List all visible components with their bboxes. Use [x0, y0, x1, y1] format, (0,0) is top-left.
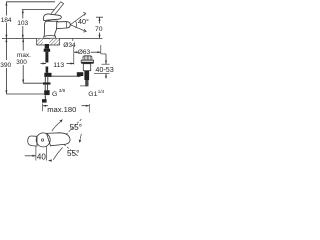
dimension 390 [5, 38, 7, 60]
spray angle 40 deg rays [71, 12, 87, 32]
top view: spout stub (left) [28, 136, 37, 146]
hoses continue [44, 85, 46, 90]
hose fitting bar [43, 82, 51, 84]
wire: 390 bottom reference line [6, 93, 44, 95]
hose tail [44, 95, 46, 99]
waste thread end line [80, 85, 87, 87]
svg-text:40°: 40° [78, 17, 89, 26]
pop-up waste detail: stem [84, 71, 89, 80]
connector block [44, 73, 51, 77]
svg-text:390: 390 [0, 62, 11, 69]
horizontal pop-up linkage rod [52, 75, 80, 77]
small rotation arrow at lever tip [80, 134, 82, 141]
dimension dia 63 [73, 46, 75, 65]
pop-up waste detail: flange [81, 60, 93, 62]
faucet side view: aerator face line [66, 22, 68, 28]
svg-text:300: 300 [16, 59, 27, 66]
faucet side view: handle lever (horizontal) [43, 14, 61, 20]
dimension 70 (spout height) [96, 16, 103, 18]
svg-text:40: 40 [37, 153, 46, 162]
svg-text:40-53: 40-53 [95, 65, 113, 74]
dimension max.180 [42, 104, 44, 112]
svg-text:G: G [52, 91, 57, 98]
wire: max300 bottom reference line [23, 82, 43, 84]
svg-text:70: 70 [95, 26, 103, 33]
dashed swivel ray lower [64, 145, 79, 157]
tick for hole dia 34 [72, 38, 74, 41]
pop-up waste detail: knurled knob [83, 56, 92, 60]
deck section bottom line [37, 44, 60, 46]
svg-text:G1: G1 [88, 91, 97, 98]
hose end fitting [42, 99, 47, 102]
svg-text:3/8: 3/8 [59, 88, 66, 93]
deck section hatching right of shank [49, 39, 59, 45]
wire: reference line height 103 [22, 9, 56, 11]
svg-text:max.180: max.180 [47, 105, 76, 114]
svg-text:Ø63: Ø63 [78, 49, 91, 56]
svg-text:113: 113 [53, 62, 64, 69]
hose pair below block [44, 77, 46, 83]
dimension 113 [41, 63, 47, 65]
dimension 40-53 (clamping range) [101, 53, 106, 55]
top view: handle lever capsule (right) [47, 133, 71, 146]
pop-up waste detail: body [83, 64, 90, 71]
svg-text:103: 103 [17, 20, 28, 27]
faucet side view: raised lever (alternate position) [46, 2, 63, 22]
top view: cartridge dot [41, 139, 43, 141]
faucet side view: spout nose [57, 22, 71, 29]
faucet side view: base flange [44, 36, 56, 39]
G 3/8 connection nut [44, 90, 49, 95]
swivel arc arrow upper [52, 122, 60, 131]
mounting nut [44, 49, 50, 52]
swivel arc arrow lower [53, 148, 62, 160]
top view: body circle [36, 133, 50, 147]
svg-text:55°: 55° [70, 123, 82, 132]
shank below deck [45, 44, 49, 49]
dimension 103 [22, 10, 24, 39]
svg-text:184: 184 [1, 17, 12, 24]
dimension 184 [5, 2, 7, 39]
deck section hatching left of shank [37, 39, 43, 45]
faucet side view: body [44, 21, 58, 38]
wire: deck surface line [2, 37, 103, 39]
dimension max300 [22, 38, 24, 50]
dashed swivel ray upper [66, 119, 82, 135]
wire: top reference line (lever raised, height 184) [6, 1, 55, 3]
pop-up waste detail: threaded tail [85, 80, 88, 86]
svg-text:1/4: 1/4 [98, 89, 105, 94]
pull rod / hoses upper run [45, 52, 48, 63]
dimension 40 (top view) [35, 147, 37, 161]
pull rod lower run [46, 67, 49, 73]
pop-up waste detail: rod lug [77, 72, 84, 76]
svg-text:55°: 55° [67, 149, 79, 158]
